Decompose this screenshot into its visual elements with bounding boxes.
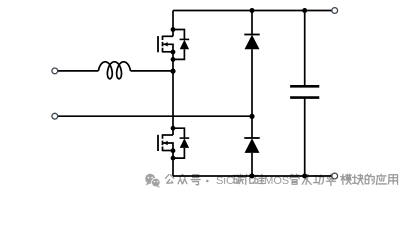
svg-text:MOS: MOS xyxy=(264,175,289,187)
svg-text:SiC: SiC xyxy=(216,175,234,187)
